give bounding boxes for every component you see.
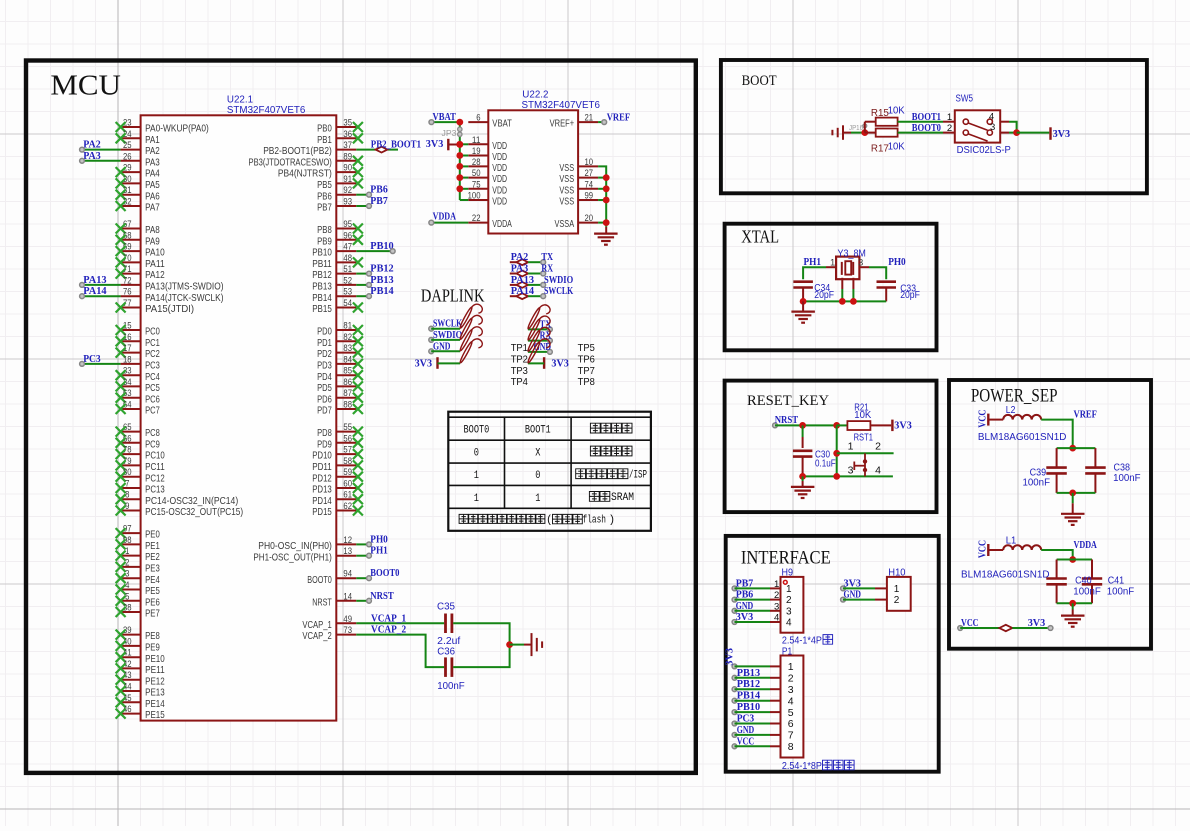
capacitor C34 <box>793 282 813 302</box>
pin 85 PD4 <box>317 366 363 383</box>
svg-text:3: 3 <box>990 122 995 133</box>
svg-text:2.54-1*8P: 2.54-1*8P <box>782 761 822 772</box>
svg-text:PA14: PA14 <box>83 285 107 297</box>
wire VSS rail <box>598 166 606 227</box>
net label 3V3 <box>736 611 754 623</box>
svg-text:PA3: PA3 <box>511 263 529 275</box>
svg-text:20pF: 20pF <box>814 290 834 301</box>
pin 57 PD10 <box>312 445 363 462</box>
svg-text:PB14: PB14 <box>737 690 761 702</box>
svg-text:3V3: 3V3 <box>1053 128 1071 140</box>
svg-text:92: 92 <box>343 185 352 196</box>
pin 91 PB5 <box>317 174 363 191</box>
pin 98 PE1 <box>116 535 160 552</box>
svg-text:U22.2: U22.2 <box>522 89 548 100</box>
junction C30 gnd <box>799 473 806 480</box>
svg-text:JP16: JP16 <box>849 125 863 132</box>
testpoint loop <box>459 304 482 329</box>
svg-text:PA2: PA2 <box>83 139 101 151</box>
wire BOOT1 <box>898 121 955 123</box>
svg-text:PB11: PB11 <box>312 258 332 270</box>
wire RST1 row34 <box>803 475 893 477</box>
svg-text:GND: GND <box>737 724 755 736</box>
table note default flash <box>459 514 615 526</box>
svg-text:2: 2 <box>875 440 881 452</box>
pin 5 P1 <box>770 707 794 719</box>
svg-text:14: 14 <box>343 591 352 602</box>
svg-text:PE6: PE6 <box>145 596 160 608</box>
pin 90 PB4(NJTRST) <box>278 163 363 180</box>
svg-text:2: 2 <box>947 123 952 134</box>
svg-text:100nF: 100nF <box>437 681 465 692</box>
R17 value 10K <box>888 142 905 153</box>
svg-text:C36: C36 <box>437 647 455 658</box>
svg-text:75: 75 <box>472 179 481 190</box>
svg-text:3V3: 3V3 <box>415 358 433 370</box>
svg-text:PC14-OSC32_IN(PC14): PC14-OSC32_IN(PC14) <box>145 495 238 507</box>
net label PA3 <box>80 150 102 163</box>
svg-text:49: 49 <box>343 614 352 625</box>
junction VSS rail <box>603 197 610 204</box>
wire VDD stub <box>460 188 469 190</box>
wire ground bus XTAL <box>803 300 886 302</box>
L2 designator <box>1006 405 1016 416</box>
ground XTAL <box>791 301 815 322</box>
wire VDD stub <box>460 155 469 157</box>
pin 40 PE9 <box>116 636 160 653</box>
svg-text:R15: R15 <box>871 108 890 119</box>
pin 99 VSS <box>559 191 598 208</box>
svg-text:10K: 10K <box>888 142 905 153</box>
junction R15 R17 node <box>861 122 868 136</box>
pin 37 PB2-BOOT1(PB2) <box>263 140 356 157</box>
svg-text:PB3(JTDOTRACESWO): PB3(JTDOTRACESWO) <box>249 156 332 168</box>
table grid lines <box>448 417 651 508</box>
wire PB6 <box>356 194 369 196</box>
svg-text:89: 89 <box>343 151 352 162</box>
wire NRST <box>773 423 837 428</box>
svg-text:VSS: VSS <box>559 184 574 196</box>
net label PA14 <box>80 285 107 298</box>
pin 89 PB3(JTDOTRACESWO) <box>249 151 363 168</box>
net label PH1 <box>804 256 822 268</box>
pin 79 PC11 <box>116 456 165 473</box>
svg-text:PC8: PC8 <box>145 427 160 439</box>
junction VDD rail <box>456 141 463 148</box>
net label BOOT1 <box>912 111 941 123</box>
pin 73 VCAP_2 <box>302 625 356 642</box>
testpoint TP3 designator <box>511 365 528 377</box>
svg-text:PH1: PH1 <box>804 256 822 268</box>
svg-text:PC11: PC11 <box>145 461 165 473</box>
wire BOOT0 <box>356 577 369 579</box>
svg-text:100nF: 100nF <box>1113 473 1141 484</box>
pin 80 PC12 <box>116 467 165 484</box>
svg-text:PB12: PB12 <box>312 269 332 281</box>
BOOT block border <box>721 60 1147 193</box>
svg-text:PA0-WKUP(PA0): PA0-WKUP(PA0) <box>145 123 209 135</box>
svg-text:PD0: PD0 <box>317 326 332 338</box>
svg-text:PB6: PB6 <box>736 589 754 601</box>
svg-text:VCAP_2: VCAP_2 <box>302 630 332 642</box>
power flag VCC rotated <box>977 410 989 428</box>
wire cap loop top <box>1057 447 1096 449</box>
inductor L2 <box>1003 415 1041 420</box>
wire VREF <box>598 121 604 123</box>
svg-text:PA1: PA1 <box>145 134 160 146</box>
wire VDDA <box>1041 550 1073 560</box>
svg-text:87: 87 <box>343 388 352 399</box>
svg-text:35: 35 <box>343 118 352 129</box>
svg-text:3V3: 3V3 <box>426 138 444 150</box>
net label PA2 <box>511 251 529 263</box>
pin 26 PA3 <box>121 151 160 168</box>
power flag 3V3 <box>1049 127 1051 140</box>
pin 1 Y3 <box>830 257 835 268</box>
svg-text:PD3: PD3 <box>317 360 332 372</box>
svg-text:PD2: PD2 <box>317 348 332 360</box>
svg-text:PD7: PD7 <box>317 405 332 417</box>
svg-text:20pF: 20pF <box>900 290 920 301</box>
pin 63 PC6 <box>116 388 160 405</box>
svg-text:74: 74 <box>585 179 594 190</box>
testpoint loop <box>527 339 550 364</box>
wire VCC P1 <box>732 744 770 749</box>
pin 30 PA5 <box>116 174 160 191</box>
pin 2 H10 <box>875 595 900 606</box>
svg-text:PC15-OSC32_OUT(PC15): PC15-OSC32_OUT(PC15) <box>145 506 243 518</box>
RST1 designator <box>854 433 873 444</box>
capacitor C40 <box>1046 560 1067 604</box>
pin 78 PC10 <box>116 445 165 462</box>
svg-text:PE5: PE5 <box>145 585 160 597</box>
svg-text:28: 28 <box>472 157 481 168</box>
svg-text:21: 21 <box>585 113 594 124</box>
svg-text:PA3: PA3 <box>145 156 160 168</box>
net label PC3 <box>737 713 755 725</box>
svg-text:VDD: VDD <box>492 196 507 208</box>
svg-text:1: 1 <box>947 112 952 123</box>
svg-text:PD11: PD11 <box>312 461 332 473</box>
svg-text:PB8: PB8 <box>317 224 332 236</box>
L1 designator <box>1006 536 1017 547</box>
svg-text:L2: L2 <box>1006 405 1016 416</box>
C38 value <box>1113 473 1141 484</box>
value 2.2uf <box>437 636 460 647</box>
svg-text:L1: L1 <box>1006 536 1017 547</box>
op-amp U22.2 designator <box>522 89 548 100</box>
testpoint loop <box>527 316 550 341</box>
pin 35 PB0 <box>317 118 363 135</box>
C39 designator <box>1030 467 1047 478</box>
net label PB10 <box>737 701 761 713</box>
wire C36 to junction <box>453 645 509 668</box>
svg-text:26: 26 <box>123 151 132 162</box>
svg-text:3V3: 3V3 <box>551 358 569 370</box>
net label SWCLK <box>433 318 463 330</box>
svg-text:PA15(JTDI): PA15(JTDI) <box>145 303 194 315</box>
svg-text:PB14: PB14 <box>312 292 332 304</box>
svg-text:PA2: PA2 <box>145 145 160 157</box>
svg-text:TX: TX <box>541 251 553 263</box>
pin 4 P1 <box>770 695 794 707</box>
ground POWER_SEP <box>1061 610 1085 627</box>
pin 88 PD7 <box>317 400 363 417</box>
svg-text:PC13: PC13 <box>145 484 165 496</box>
net label VCC <box>961 617 979 629</box>
svg-text:51: 51 <box>343 264 352 275</box>
svg-text:PC7: PC7 <box>145 405 160 417</box>
pin 36 PB1 <box>317 129 363 146</box>
net tie PA14-SWCLK <box>510 293 546 299</box>
svg-text:PB6: PB6 <box>317 190 332 202</box>
junction VCAP ground node <box>506 641 513 648</box>
net label 3V3 rotated <box>724 648 736 666</box>
wire VCAP_1 to junction <box>453 623 509 644</box>
resistor R21 <box>837 421 892 430</box>
svg-text:VREF: VREF <box>1074 409 1098 421</box>
capacitor C33 <box>877 282 897 302</box>
svg-text:6: 6 <box>788 718 794 730</box>
RESET_KEY block title <box>747 393 829 409</box>
resistor R15 <box>865 118 898 126</box>
svg-text:SWDIO: SWDIO <box>433 329 463 341</box>
svg-text:PA13(JTMS-SWDIO): PA13(JTMS-SWDIO) <box>145 281 223 293</box>
svg-text:VSS: VSS <box>559 173 574 185</box>
pin 11 VDD <box>468 135 507 152</box>
ground U22.2 <box>594 227 618 245</box>
svg-text:PE9: PE9 <box>145 642 160 654</box>
svg-text:GND: GND <box>736 600 754 612</box>
net label 3V3 <box>1053 128 1071 140</box>
svg-text:DAPLINK: DAPLINK <box>421 286 485 306</box>
svg-text:10K: 10K <box>854 410 871 421</box>
svg-text:PE13: PE13 <box>145 687 165 699</box>
wire GND H9 <box>732 608 770 613</box>
jumper JP3 <box>442 127 462 138</box>
pin 2 H9 <box>770 590 792 606</box>
pin 8 P1 <box>770 741 794 753</box>
wire VSS stub <box>598 188 606 190</box>
svg-text:PD12: PD12 <box>312 472 332 484</box>
table cell 0 <box>474 448 479 460</box>
connector H9 designator <box>782 568 794 579</box>
svg-text:2: 2 <box>774 590 779 601</box>
svg-text:2: 2 <box>894 595 900 606</box>
wire PB12 P1 <box>732 687 770 692</box>
svg-text:1: 1 <box>848 440 854 452</box>
svg-text:19: 19 <box>472 146 481 157</box>
svg-text:81: 81 <box>343 321 352 332</box>
svg-text:TP4: TP4 <box>511 376 528 388</box>
svg-text:83: 83 <box>343 343 352 354</box>
svg-text:PD4: PD4 <box>317 371 332 383</box>
junction column row34 <box>833 473 840 480</box>
pin 27 VSS <box>559 168 598 185</box>
svg-text:10K: 10K <box>888 106 905 117</box>
svg-text:PD9: PD9 <box>317 438 332 450</box>
svg-text:PB14: PB14 <box>370 285 394 297</box>
svg-text:1: 1 <box>774 579 779 590</box>
junction cap bottom <box>1069 600 1076 607</box>
wire 3V3 H10 <box>841 586 875 591</box>
svg-text:PE15: PE15 <box>145 709 165 721</box>
pin 76 PA14(JTCK-SWCLK) <box>121 287 224 304</box>
svg-text:48: 48 <box>343 253 352 264</box>
svg-text:PC5: PC5 <box>145 382 160 394</box>
junction NRST RST1 <box>833 422 840 429</box>
power flag 3V3 right testpoint <box>528 357 544 369</box>
svg-text:C35: C35 <box>437 601 456 612</box>
wire ground to junction <box>851 132 865 134</box>
junction Y3 pin2 gnd <box>839 298 846 305</box>
wire VCC to inductor <box>988 549 1003 551</box>
XTAL block title <box>741 227 779 247</box>
net label PH0 <box>367 533 389 546</box>
wire VCC to inductor <box>988 419 1003 421</box>
svg-text:R17: R17 <box>871 143 889 154</box>
svg-text:VDDA: VDDA <box>1074 539 1097 551</box>
C30 value 0.1uF <box>815 458 836 469</box>
svg-text:59: 59 <box>343 467 352 478</box>
pin 8 PC14-OSC32_IN(PC14) <box>116 490 239 507</box>
net label 3V3 <box>844 577 862 589</box>
pin 1 H10 <box>875 584 900 595</box>
pin 61 PD14 <box>312 490 363 507</box>
svg-text:PE0: PE0 <box>145 529 160 541</box>
svg-text:BOOT0: BOOT0 <box>912 122 942 134</box>
pin 2 PE3 <box>116 557 160 574</box>
svg-text:100nF: 100nF <box>1023 477 1051 488</box>
net tie PA3-RX <box>510 271 546 277</box>
svg-text:PD14: PD14 <box>312 495 332 507</box>
L1 value BLM18AG601SN1D <box>961 570 1050 581</box>
svg-text:PE1: PE1 <box>145 540 160 552</box>
svg-text:PA13: PA13 <box>511 274 535 286</box>
svg-text:99: 99 <box>585 191 594 202</box>
svg-text:DSIC02LS-P: DSIC02LS-P <box>957 145 1012 156</box>
svg-text:4: 4 <box>788 695 794 707</box>
net label BOOT0 <box>912 122 942 134</box>
net label VCAP_1 <box>371 612 406 624</box>
RESET_KEY block border <box>725 381 937 512</box>
svg-text:SWCLK: SWCLK <box>544 285 574 297</box>
svg-text:PB6: PB6 <box>370 184 388 196</box>
table cell xitongcunchuqi/ISP <box>576 469 648 482</box>
net label VREF <box>1074 409 1098 421</box>
pin 4 PE5 <box>116 580 160 597</box>
INTERFACE block title <box>741 548 831 569</box>
net label PB6 <box>367 184 389 197</box>
net label 3V3 <box>426 138 444 150</box>
svg-text:55: 55 <box>343 422 352 433</box>
XTAL block border <box>725 224 937 351</box>
junction VBAT node <box>456 119 463 126</box>
capacitor C39 <box>1046 448 1067 493</box>
net label PB10 <box>370 240 395 253</box>
svg-text:PD10: PD10 <box>312 450 332 462</box>
svg-text:PA13: PA13 <box>83 274 107 286</box>
svg-text:76: 76 <box>123 287 132 298</box>
svg-text:PC4: PC4 <box>145 371 160 383</box>
U22.2 value STM32F407VET6 <box>522 100 601 111</box>
capacitor C30 <box>793 425 813 476</box>
pin 46 PE15 <box>116 704 165 721</box>
svg-text:1: 1 <box>474 470 480 482</box>
junction 3V3 node <box>1013 129 1020 136</box>
boot mode table frame <box>448 412 651 531</box>
pin 3 RST1 <box>848 465 854 477</box>
svg-text:2: 2 <box>786 595 792 606</box>
SW5 designator <box>956 94 974 105</box>
svg-text:VDD: VDD <box>492 173 507 185</box>
net label VREF <box>602 111 631 124</box>
wire to ground <box>1072 603 1074 609</box>
L2 value BLM18AG601SN1D <box>978 432 1067 443</box>
svg-text:PD5: PD5 <box>317 382 332 394</box>
svg-text:PE12: PE12 <box>145 675 165 687</box>
net label PB12 <box>737 678 761 690</box>
pin 21 VREF+ <box>550 113 599 130</box>
svg-text:INTERFACE: INTERFACE <box>741 548 831 569</box>
pin 31 PA6 <box>116 185 160 202</box>
pin 41 PE10 <box>116 648 165 665</box>
pin 66 PC9 <box>116 433 160 450</box>
svg-text:3V3: 3V3 <box>736 611 754 623</box>
junction cap top <box>1069 445 1076 452</box>
svg-text:TP6: TP6 <box>578 354 595 366</box>
C39 value <box>1023 477 1051 488</box>
wire VDD rail <box>459 122 461 200</box>
POWER_SEP block border <box>949 380 1151 649</box>
svg-text:PE3: PE3 <box>145 563 160 575</box>
svg-text:86: 86 <box>343 377 352 388</box>
svg-text:VCAP_1: VCAP_1 <box>302 619 332 631</box>
net label PB13 <box>367 274 395 287</box>
pin 49 VCAP_1 <box>302 614 356 631</box>
svg-text:50: 50 <box>472 168 481 179</box>
wire PA3 <box>82 160 121 162</box>
pin 45 PE14 <box>116 693 165 710</box>
net label PA2 <box>80 139 102 152</box>
svg-text:88: 88 <box>343 400 352 411</box>
svg-text:PB12: PB12 <box>370 263 394 275</box>
svg-text:3: 3 <box>848 465 854 477</box>
switch SW5 <box>955 110 1000 142</box>
svg-text:GND: GND <box>433 340 451 352</box>
pin 77 PA15(JTDI) <box>116 298 195 315</box>
svg-text:PC9: PC9 <box>145 438 160 450</box>
net tie VCC-3V3 <box>999 625 1012 631</box>
junction VDD rail <box>456 152 463 159</box>
svg-text:PA10: PA10 <box>145 247 165 259</box>
svg-text:PC3: PC3 <box>145 360 160 372</box>
testpoint TP2 designator <box>511 354 528 366</box>
svg-text:MCU: MCU <box>50 70 121 102</box>
svg-text:BLM18AG601SN1D: BLM18AG601SN1D <box>978 432 1067 443</box>
U22.1 value STM32F407VET6 <box>227 105 306 116</box>
svg-text:PB2_BOOT1: PB2_BOOT1 <box>371 139 421 151</box>
capacitor C35 <box>437 601 456 633</box>
ground BOOT <box>832 125 851 140</box>
pin 53 PB14 <box>312 287 356 304</box>
svg-text:37: 37 <box>343 140 352 151</box>
svg-text:1: 1 <box>894 584 900 595</box>
pin 75 VDD <box>468 179 507 196</box>
R15 designator <box>871 108 890 119</box>
svg-text:4: 4 <box>786 618 792 629</box>
junction VSS rail <box>603 174 610 181</box>
